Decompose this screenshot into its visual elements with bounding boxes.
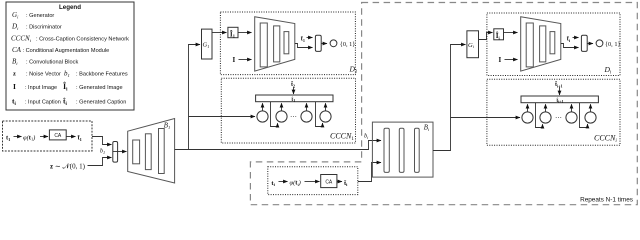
wire recurrent rect to celli2 [536, 103, 543, 128]
wire z to concat [88, 158, 112, 166]
svg-text:: Cross-Caption Consistency N: : Cross-Caption Consistency Network [36, 37, 129, 43]
wire celli3 up to rect [571, 104, 573, 112]
CCCN1 caption rect [256, 95, 333, 103]
CCCNi rnn cell 3 [566, 112, 577, 123]
svg-text:CA: CA [54, 133, 62, 139]
backbone B1 trapezoid [128, 119, 175, 184]
Di conv bar 2 [540, 26, 546, 62]
D1 output sigmoid circle [330, 40, 337, 47]
wire cell3 up to rect [306, 103, 308, 111]
svg-text:I: I [499, 56, 502, 64]
Bi conv bar 2 [399, 128, 404, 172]
wire D1 features to concat [295, 44, 313, 48]
wire cell4 up to rect [325, 103, 327, 111]
svg-text:CA: CA [325, 179, 333, 185]
wire Gi to Ihati [479, 33, 493, 40]
wire b1 long line from B1 to Bi [175, 141, 381, 150]
wire celli2 up to rect [545, 104, 547, 112]
B1 conv bar 3 [159, 129, 165, 174]
label tbar1 in D1 [301, 36, 305, 43]
convolutional block Bi box [372, 122, 433, 177]
legend row Bi Convolutional Block [12, 58, 78, 66]
CA module box stage 1 [49, 130, 66, 140]
D1 conv bar 3 [284, 32, 289, 54]
Bi conv bar 1 [384, 128, 389, 172]
label tbari [344, 180, 348, 187]
wire b1 branch to CCCN1 [189, 116, 256, 118]
legend row ti Input Caption / ti Generated Caption [12, 96, 126, 107]
wire concat to B1 [118, 151, 127, 153]
CCCNi caption rect [521, 96, 598, 104]
stage-i text input dotted box [268, 167, 358, 195]
svg-text:z ∼ 𝒩(0, 1): z ∼ 𝒩(0, 1) [50, 162, 86, 171]
wire phi to CA [40, 136, 48, 138]
B1 conv bar 2 [145, 134, 151, 170]
wire thati+1 arrow into caption rect [559, 87, 561, 95]
CCCN1 rnn cell 4 [320, 111, 331, 122]
wire tbar1 to concat [92, 137, 112, 145]
wire Di features to concat [561, 44, 579, 48]
wire that2 arrow into caption rect [293, 87, 295, 94]
Bi conv bar 3 [415, 128, 420, 172]
legend row CCCNi Cross-Caption Consistency Network [11, 35, 129, 43]
wire D1 concat to sigmoid [321, 43, 327, 45]
wire cell2 up to rect [281, 103, 283, 111]
svg-text:CCCNi: CCCNi [11, 35, 32, 43]
svg-text:: Conditional Augmentation Mo: : Conditional Augmentation Module [23, 48, 110, 54]
svg-text:φ(ti): φ(ti) [290, 180, 301, 187]
legend row z Noise Vector / bi Backbone Features [13, 70, 128, 78]
svg-text:t̂2: t̂2 [291, 82, 295, 89]
repeats N-1 times dashed region [250, 3, 637, 205]
CCCNi dotted box [487, 79, 620, 145]
wire recurrent rect to cell2 [271, 102, 278, 127]
Di concat node [581, 35, 587, 51]
D1 concat node [315, 35, 321, 51]
wire tbari to Di concat [573, 37, 579, 39]
wire celli1 up to rect [527, 104, 529, 112]
CCCNi rnn cell 4 [585, 112, 596, 123]
wire tbar1 to D1 concat [307, 37, 313, 39]
wire riser b1 to G1 [189, 45, 201, 150]
svg-text:: Generated Caption: : Generated Caption [76, 100, 126, 106]
generator G1 box [202, 29, 213, 59]
legend row I Input Image / Ii Generated Image [13, 81, 123, 93]
svg-text:CA: CA [12, 46, 22, 54]
B1 conv bar 1 [133, 140, 140, 164]
svg-text:: Backbone Features: : Backbone Features [76, 72, 128, 78]
D1 conv bar 2 [274, 26, 280, 62]
discriminator D1 dotted box [220, 12, 355, 75]
CCCN1 rnn cell 2 [276, 111, 287, 122]
wire G1 to Ihat1 [212, 32, 227, 34]
stage-1 text input dashed box [3, 121, 93, 151]
wire CA to tbar1 [66, 136, 75, 138]
CCCNi rnn cell 1 [522, 112, 533, 123]
svg-text:: Input Image: : Input Image [25, 85, 57, 91]
svg-text:: Noise Vector: : Noise Vector [26, 72, 61, 78]
label tbari in Di [567, 36, 571, 43]
generated image Ihat1 box [228, 27, 238, 38]
wire tbari to Bi [358, 163, 381, 182]
svg-text:Legend: Legend [59, 4, 81, 11]
wire Bi output riser to Gi [433, 45, 466, 151]
wire phi to CA stage i [305, 181, 320, 183]
svg-text:···: ··· [555, 114, 562, 122]
svg-text:φ(t1): φ(t1) [23, 134, 35, 141]
svg-text:z: z [13, 71, 16, 78]
CA module box stage i [321, 175, 337, 188]
legend box [6, 2, 134, 110]
wire bi branch to CCCNi [451, 117, 521, 119]
D1 encoder trapezoid [255, 17, 295, 71]
wire ti to phi [279, 181, 288, 183]
svg-text:b1: b1 [100, 149, 105, 155]
svg-text:: Convolutional Block: : Convolutional Block [26, 60, 78, 66]
legend row Di Discriminator [11, 23, 62, 31]
CCCNi rnn cell 2 [540, 112, 551, 123]
wire I to D1 trapezoid [239, 59, 252, 61]
wire recurrent rect to cell4 [316, 102, 323, 127]
Di output sigmoid circle [596, 40, 603, 47]
CCCN1 rnn cell 1 [257, 111, 268, 122]
wire t1 to phi [14, 136, 22, 138]
svg-text:{0, 1}: {0, 1} [340, 41, 356, 48]
svg-text:: Generated Image: : Generated Image [76, 85, 123, 91]
svg-text:{0, 1}: {0, 1} [605, 41, 621, 48]
svg-text:: Discriminator: : Discriminator [26, 25, 62, 31]
label that2 above caption rect [291, 82, 295, 89]
CCCN1 rnn cell 3 [301, 111, 312, 122]
generator Gi box [467, 31, 479, 58]
concat node stage 1 [113, 142, 118, 163]
discriminator Di dotted box [487, 13, 620, 76]
label thati+1 above caption rect [555, 82, 563, 89]
D1 conv bar 1 [260, 23, 267, 67]
wire I to Di trapezoid [505, 59, 518, 61]
svg-text:I: I [233, 56, 236, 64]
svg-text:t̂i+1: t̂i+1 [555, 82, 563, 89]
Di conv bar 1 [526, 23, 533, 67]
wire CA to tbari [337, 181, 342, 183]
svg-text:t̂i+1: t̂i+1 [556, 98, 563, 105]
svg-text:I: I [13, 82, 16, 91]
Di conv bar 3 [550, 32, 555, 54]
Di encoder trapezoid [521, 17, 561, 71]
CCCN1 dotted box [221, 78, 355, 143]
svg-text:: Input Caption: : Input Caption [25, 100, 61, 106]
wire celli4 up to rect [590, 104, 592, 112]
svg-text:: Generator: : Generator [26, 13, 54, 19]
legend row CA Conditional Augmentation Module [12, 46, 109, 54]
svg-text:t̂1: t̂1 [291, 97, 295, 104]
wire recurrent rect to celli4 [580, 103, 588, 128]
generated image Ihati box [494, 29, 504, 41]
wire cell1 up to rect [262, 103, 264, 111]
wire Ihati to Di trapezoid [504, 32, 518, 34]
label tbar1 [78, 135, 82, 142]
svg-text:···: ··· [290, 113, 297, 121]
wire Di concat to sigmoid [587, 43, 593, 45]
legend row Gi Generator [12, 11, 54, 19]
wire Ihat1 to D1 trapezoid [238, 32, 252, 34]
svg-text:Repeats N-1 times: Repeats N-1 times [580, 197, 633, 204]
